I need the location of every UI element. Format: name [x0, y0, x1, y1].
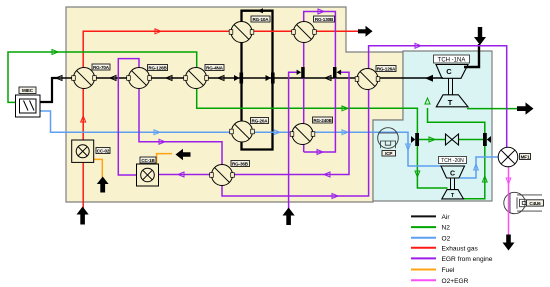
arrow: blue right on O2 main x276 — [274, 130, 280, 135]
wire: orange fuel to CC-01 — [157, 154, 172, 164]
wire: green N2 MIEC inlet — [8, 52, 417, 134]
engine C4U6B — [504, 192, 542, 213]
label RG-240B — [313, 117, 333, 123]
label RG-4NA — [205, 65, 224, 71]
wire: purple EGR inlet bottom riser — [289, 72, 298, 211]
wire: magenta engine to exit arrow — [508, 214, 510, 236]
svg-text:O2+EGR: O2+EGR — [442, 278, 469, 285]
svg-text:TCH -20N: TCH -20N — [441, 158, 464, 164]
burner ICP — [378, 128, 399, 149]
heat exchanger RG-10A — [229, 22, 254, 43]
arrow: blue right on O2 main x156 — [154, 130, 160, 135]
wire: red exhaust main CC-02 up through RG-70A to output — [83, 31, 372, 140]
mixer MF1 — [498, 147, 518, 167]
svg-text:CC-1B: CC-1B — [141, 158, 155, 163]
arrow: N2 outlet (right) — [517, 102, 534, 114]
label RG-20A — [251, 118, 269, 124]
combustor CC-02 label — [96, 148, 110, 154]
arrow: air inlet (down) — [474, 27, 486, 45]
wire: red CC-02 bottom to external arrow — [82, 162, 84, 208]
svg-text:C4U6: C4U6 — [529, 201, 541, 206]
wire: blue compressor C2 outlet to mixer — [460, 157, 499, 178]
svg-text:TCH -1NA: TCH -1NA — [438, 58, 466, 64]
legend N2 — [411, 225, 450, 232]
label RG-10A — [251, 16, 270, 22]
arrow: green right at MIEC top — [52, 50, 58, 55]
arrow: purple left into RG-36B — [324, 172, 330, 177]
wire: green turbine T1 outlet to exit arrow — [467, 108, 518, 110]
svg-text:C: C — [450, 171, 455, 178]
heat exchanger RG-36B — [210, 165, 235, 186]
valve between bars — [446, 134, 459, 145]
svg-text:RG-10A: RG-10A — [253, 17, 270, 22]
junction: valve left bar — [411, 133, 419, 146]
label RG-36B — [231, 161, 250, 167]
MIEC unit — [16, 95, 41, 117]
arrow: fuel inlet up (to CC-02) — [97, 177, 109, 193]
wire: magenta O2+EGR mixer to engine — [508, 167, 510, 194]
legend O2 — [411, 235, 451, 242]
turbocharger TCH-20N shaft — [451, 178, 455, 190]
wire: black air inlet line to compressor C1 — [464, 44, 479, 67]
svg-text:EGR from engine: EGR from engine — [442, 256, 493, 263]
arrow: purple right on top loop — [318, 9, 324, 14]
wire: purple tee to RG-36B right side — [233, 72, 349, 174]
wire: purple vertical through RG-130B and RG-240B — [303, 22, 305, 153]
svg-text:Exhaust gas: Exhaust gas — [442, 245, 479, 252]
turbocharger TCH-1NA turbine T — [436, 95, 468, 107]
wire: black RG-10A / RG-20A recirculation loop — [242, 11, 273, 150]
wire: purple CC-01 left feed — [118, 59, 139, 175]
engine label — [527, 200, 544, 206]
heat exchanger RG-20A — [230, 121, 255, 142]
svg-text:CC-02: CC-02 — [97, 148, 110, 153]
turbocharger TCH-1NA label — [434, 55, 470, 64]
svg-text:MF1: MF1 — [521, 154, 530, 159]
svg-text:RG-20A: RG-20A — [252, 118, 269, 123]
MIEC label — [19, 87, 36, 94]
svg-text:O2: O2 — [442, 235, 451, 242]
wire: black air main line MIEC to compressor C1 — [53, 77, 443, 79]
label RG-70A — [92, 64, 110, 70]
label RG-130B — [314, 16, 335, 22]
combustor CC-01 label — [140, 157, 156, 163]
arrow: green right before valve — [429, 137, 435, 142]
svg-text:RG-126A: RG-126A — [377, 66, 396, 71]
turbocharger TCH-1NA compressor C — [436, 65, 468, 79]
wire: green right bar up to turbine T1 inlet — [428, 108, 485, 134]
svg-text:RG-4NA: RG-4NA — [206, 65, 224, 70]
burner ICP label — [382, 151, 396, 157]
arrow: black left on main line — [56, 76, 62, 81]
arrow: exhaust outlet (right) — [358, 26, 373, 37]
svg-text:MIEC: MIEC — [22, 88, 34, 93]
svg-text:Air: Air — [442, 214, 451, 221]
junction: black connector at x335 — [333, 67, 341, 78]
arrow: purple right on CC-01 top line — [159, 139, 165, 144]
cyan turbocharger area background — [373, 51, 492, 201]
arrow: O2+EGR outlet (down) — [503, 235, 515, 251]
arrow: red up on CC-02 exhaust — [81, 116, 86, 122]
wire: green valve bypass line — [419, 139, 483, 141]
arrow: green down to turbine T2 — [415, 171, 420, 177]
svg-text:RG-36B: RG-36B — [232, 161, 249, 166]
svg-text:RG-126B: RG-126B — [148, 65, 167, 70]
arrow: magenta down to engine — [506, 178, 511, 184]
arrow: green up from turbine T2 — [482, 176, 487, 182]
junction: black tee at x241 — [234, 73, 243, 84]
arrow: fuel inlet left (to CC-01) — [176, 149, 191, 160]
legend Exhaust gas — [411, 245, 478, 252]
arrow: blue right on O2 main x344 — [342, 130, 348, 135]
heat exchanger RG-130B — [292, 22, 317, 43]
arrow: blue up to mixer — [474, 164, 479, 170]
svg-text:RG-70A: RG-70A — [93, 65, 110, 70]
arrow: green right on N2 main — [342, 106, 348, 111]
wire: blue O2 from MIEC main line — [40, 111, 441, 166]
wire: purple CC-01 to RG-36B — [159, 174, 212, 176]
wire: black MIEC connection — [40, 77, 58, 102]
arrow: EGR inlet (up) — [283, 208, 295, 226]
magenta through engine — [508, 194, 510, 215]
svg-text:T: T — [448, 98, 453, 107]
heat exchanger RG-126B — [127, 68, 152, 89]
svg-text:RG-130B: RG-130B — [315, 17, 334, 22]
arrow: purple right on top EGR line to mixer — [415, 43, 421, 48]
junction: black tee at x273 — [266, 73, 275, 84]
legend O2+EGR — [411, 278, 469, 285]
heat exchanger RG-4NA — [184, 68, 209, 89]
legend Fuel — [411, 267, 455, 274]
arrow: green up into turbine T1 — [425, 98, 430, 104]
svg-text:C: C — [446, 67, 452, 76]
svg-text:Fuel: Fuel — [442, 267, 455, 274]
svg-text:ICP: ICP — [385, 151, 392, 156]
turbocharger TCH-1NA shaft — [449, 78, 453, 95]
arrow: purple right on RG-240B bottom link — [317, 150, 323, 155]
turbocharger TCH-20N turbine T — [442, 190, 464, 200]
wire: purple RG-36B bottom to riser and mixer — [222, 46, 507, 196]
wire: orange fuel to CC-02 — [94, 159, 103, 177]
beige process area background — [66, 7, 403, 202]
heat exchanger RG-70A — [72, 68, 97, 89]
legend EGR from engine — [411, 256, 493, 263]
arrow: red right on exhaust top — [155, 29, 161, 34]
junction: black connector at x303 — [297, 67, 305, 78]
arrow: blue down to compressor C2 — [406, 144, 411, 150]
arrow: purple left into CC-01 — [178, 172, 184, 177]
turbocharger TCH-20N compressor C — [441, 166, 465, 178]
mixer MF1 label — [520, 154, 531, 160]
wire: purple RG-130B top loop down to RG-240B link — [304, 12, 336, 153]
junction: valve right bar — [483, 133, 491, 146]
heat exchanger RG-240B — [290, 124, 315, 145]
wire: green turbine T2 outlet up to right bar — [464, 145, 485, 199]
label RG-126B — [148, 65, 168, 71]
arrow: black left on RG-10A loop — [257, 8, 263, 13]
svg-text:RG-240B: RG-240B — [313, 118, 332, 123]
arrow: exhaust bottom inlet (up) — [77, 207, 89, 225]
legend Air — [411, 214, 450, 221]
heat exchanger RG-126A — [355, 69, 380, 90]
svg-text:N2: N2 — [442, 225, 451, 232]
arrow: purple right on bottom EGR line — [332, 194, 338, 199]
turbocharger TCH-20N label — [439, 157, 467, 165]
combustor CC-02 — [72, 140, 94, 162]
label RG-126A — [376, 66, 396, 72]
wire: purple RG-126B bottom to RG-36B top — [139, 89, 222, 165]
combustor CC-01 — [137, 164, 159, 186]
wire: green left bar down to turbine T2 — [417, 145, 447, 188]
